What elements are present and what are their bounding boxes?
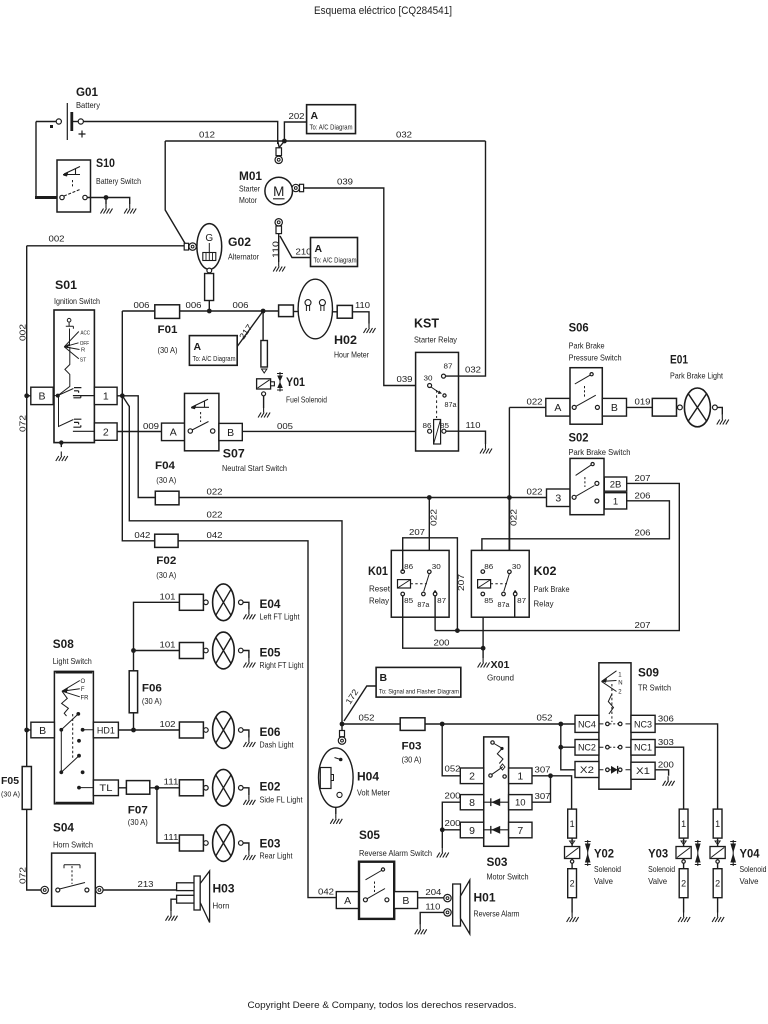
- switch S02 body: [570, 458, 604, 514]
- svg-text:A: A: [554, 402, 561, 414]
- svg-text:R: R: [81, 348, 85, 354]
- svg-text:To: A/C Diagram: To: A/C Diagram: [193, 356, 236, 363]
- wire Y03 to ground: [683, 898, 685, 913]
- switch S08 zigzag: [62, 691, 69, 716]
- connector G02 to 006 bus: [205, 274, 214, 301]
- svg-text:X2: X2: [580, 765, 594, 776]
- svg-text:072: 072: [18, 415, 28, 432]
- solenoid Y01: [257, 379, 271, 389]
- svg-text:85: 85: [404, 598, 413, 605]
- terminal Y02 1: [568, 809, 577, 838]
- wire 012/032 main line: [165, 140, 485, 142]
- volt meter H04 pin: [340, 731, 345, 737]
- alarm H01: [444, 894, 451, 901]
- wire battery positive 012 feed: [83, 122, 277, 145]
- svg-text:(30 A): (30 A): [142, 697, 162, 706]
- terminal S07 B: [219, 423, 242, 440]
- relay KST coil dashed link: [436, 390, 438, 418]
- wire 202 branch to A/C diagram: [284, 122, 306, 141]
- svg-text:206: 206: [635, 491, 651, 501]
- node 200 junction: [440, 827, 445, 832]
- terminal S03 2: [460, 768, 483, 784]
- wire 009 S01-2 to S07 A: [117, 431, 161, 433]
- switch S01 contact bars pin1: [73, 388, 95, 398]
- svg-text:A: A: [311, 110, 319, 122]
- terminal S06 A: [546, 398, 570, 416]
- terminal S05 A: [336, 892, 359, 909]
- switch S08 contacts: [76, 712, 80, 716]
- svg-text:111: 111: [164, 832, 179, 842]
- svg-text:102: 102: [160, 719, 176, 729]
- svg-text:210: 210: [296, 247, 312, 257]
- ground S03 200: [437, 848, 449, 858]
- ground H03: [166, 911, 178, 921]
- svg-text:Valve: Valve: [594, 876, 613, 886]
- terminal Y03 2: [679, 869, 688, 898]
- svg-text:202: 202: [289, 111, 305, 121]
- svg-text:Motor Switch: Motor Switch: [487, 872, 529, 882]
- terminal S03 10: [509, 795, 532, 810]
- solenoid Y02: [571, 838, 573, 846]
- wire 200 S03 8/9 to ground: [442, 802, 460, 848]
- svg-text:306: 306: [658, 714, 674, 724]
- svg-text:Pressure Switch: Pressure Switch: [569, 353, 622, 363]
- svg-text:S04: S04: [53, 821, 74, 835]
- svg-text:Volt Meter: Volt Meter: [357, 788, 390, 798]
- svg-text:To: Signal and Flasher Diagram: To: Signal and Flasher Diagram: [379, 689, 459, 696]
- switch S01 key symbol: [67, 318, 71, 322]
- ground Y03: [678, 913, 690, 923]
- wire Y02 to ground: [571, 898, 573, 913]
- wire 052 down to S03-2: [442, 724, 460, 776]
- svg-text:032: 032: [396, 130, 412, 140]
- connector A to A/C diagram (top): [307, 105, 356, 134]
- svg-text:S07: S07: [223, 447, 245, 461]
- ground KST: [480, 444, 492, 454]
- connector H02 left: [279, 305, 294, 317]
- svg-text:Neutral Start Switch: Neutral Start Switch: [222, 463, 287, 473]
- wire 306 NC3 to Y04: [655, 724, 718, 809]
- terminal S02 2B: [604, 477, 626, 491]
- svg-text:10: 10: [515, 798, 526, 809]
- svg-text:009: 009: [143, 421, 159, 431]
- switch S01 selector fan: [64, 329, 79, 359]
- svg-text:B: B: [227, 427, 234, 439]
- switch S07 body: [185, 393, 219, 450]
- svg-text:Park Brake: Park Brake: [569, 341, 605, 351]
- svg-text:S09: S09: [638, 666, 659, 680]
- svg-text:S03: S03: [487, 855, 508, 869]
- fuse F04: [155, 491, 179, 505]
- svg-text:Relay: Relay: [534, 599, 555, 609]
- svg-text:Fuel Solenoid: Fuel Solenoid: [286, 395, 327, 405]
- node 052 junction H04: [340, 722, 345, 727]
- lamp E03 rear light: [179, 835, 203, 851]
- wire left bus 002/072: [26, 246, 28, 767]
- wire 206 S02-1 loop: [482, 501, 670, 570]
- ground H04: [330, 814, 342, 824]
- svg-text:H01: H01: [474, 891, 496, 905]
- node G02/006 junction: [207, 309, 212, 314]
- svg-text:005: 005: [277, 421, 293, 431]
- wire 042 S01 to S05: [122, 396, 336, 898]
- svg-text:Rear Light: Rear Light: [260, 851, 294, 861]
- svg-text:307: 307: [535, 765, 551, 775]
- svg-text:Light Switch: Light Switch: [53, 656, 92, 666]
- terminal S08 HD1: [93, 722, 118, 738]
- svg-text:NC4: NC4: [578, 719, 596, 730]
- svg-text:KST: KST: [414, 317, 439, 331]
- node bus at S01 B: [24, 393, 29, 398]
- node junction 012/202: [282, 139, 287, 144]
- terminal S06 B: [602, 398, 626, 416]
- wire 110 H01 to ground: [420, 912, 444, 924]
- svg-text:NC3: NC3: [634, 719, 652, 730]
- solenoid Y03: [683, 838, 685, 846]
- svg-text:K01: K01: [368, 564, 388, 578]
- wire M01 to ground: [278, 234, 280, 262]
- svg-text:207: 207: [635, 473, 651, 483]
- svg-text:052: 052: [359, 713, 375, 723]
- wire 213 S04 to H03: [103, 889, 177, 891]
- svg-text:Park Brake Switch: Park Brake Switch: [569, 447, 631, 457]
- terminal S01 1: [94, 387, 117, 404]
- svg-text:87a: 87a: [417, 602, 429, 609]
- svg-text:Y04: Y04: [740, 847, 760, 861]
- svg-text:Hour Meter: Hour Meter: [334, 350, 369, 360]
- svg-text:002: 002: [49, 234, 65, 244]
- svg-text:F: F: [81, 687, 85, 693]
- svg-text:E06: E06: [260, 725, 281, 739]
- svg-text:Reverse Alarm Switch: Reverse Alarm Switch: [359, 848, 432, 858]
- svg-text:200: 200: [445, 791, 461, 801]
- svg-text:1: 1: [517, 771, 523, 783]
- terminal S09 NC1: [631, 740, 655, 756]
- svg-text:Alternator: Alternator: [228, 252, 259, 262]
- alternator G02 body: [197, 224, 222, 270]
- svg-text:172: 172: [343, 687, 360, 706]
- svg-text:F04: F04: [155, 460, 176, 472]
- svg-text:2B: 2B: [610, 480, 622, 491]
- svg-text:206: 206: [635, 528, 651, 538]
- svg-text:042: 042: [207, 530, 223, 540]
- svg-text:G: G: [205, 233, 213, 244]
- svg-text:Solenoid: Solenoid: [648, 864, 675, 874]
- wire S09 left bus to NC2 and X2: [561, 724, 575, 770]
- wire 110 KST 85 to ground: [446, 431, 486, 444]
- wire battery negative to S10: [35, 122, 37, 198]
- svg-text:To: A/C Diagram: To: A/C Diagram: [314, 258, 357, 265]
- svg-text:217: 217: [237, 322, 255, 341]
- svg-text:86: 86: [484, 564, 493, 571]
- svg-text:3: 3: [555, 493, 561, 505]
- lamp E02 side FL light: [179, 780, 203, 796]
- wire 102 HD1 row: [118, 729, 179, 731]
- terminal S08 B: [27, 729, 31, 731]
- wire 307 S03-1 to Y02: [532, 776, 572, 809]
- ground X01: [478, 658, 490, 668]
- relay KST body: [416, 352, 459, 451]
- lamp E06 dash light: [179, 722, 203, 738]
- svg-text:022: 022: [509, 509, 519, 526]
- wire 022 down to K01 pin30: [428, 498, 430, 571]
- wire K02 87 stub: [514, 596, 516, 618]
- wire 032 down to KST 87: [446, 141, 486, 376]
- svg-text:H04: H04: [357, 770, 379, 784]
- svg-text:E04: E04: [260, 597, 281, 611]
- svg-text:207: 207: [456, 574, 466, 591]
- svg-text:307: 307: [535, 791, 551, 801]
- svg-text:F05: F05: [1, 775, 19, 787]
- switch S01 contact node: [56, 394, 60, 398]
- terminal S01 2: [94, 423, 117, 440]
- switch S01 body: [54, 310, 94, 443]
- svg-text:(30 A): (30 A): [1, 790, 20, 799]
- wire 207 over K01: [403, 538, 458, 631]
- terminal S02 1: [604, 493, 626, 509]
- svg-text:110: 110: [270, 241, 280, 258]
- wire 101 E04/E05 feed: [134, 602, 180, 671]
- svg-text:Park Brake: Park Brake: [534, 584, 570, 594]
- svg-text:Reset: Reset: [369, 584, 391, 594]
- svg-text:2: 2: [103, 426, 109, 438]
- switch S08 dashed line: [72, 714, 74, 758]
- svg-text:A: A: [344, 895, 351, 907]
- svg-text:(30 A): (30 A): [128, 818, 148, 827]
- switch S01 zigzag: [58, 347, 70, 396]
- svg-text:ACC: ACC: [81, 331, 91, 337]
- wire 303 NC1 to Y03: [655, 747, 684, 809]
- wire bus F05 to S04: [27, 809, 41, 890]
- wire 207 S02-2B loop: [435, 483, 679, 630]
- svg-text:G01: G01: [76, 85, 98, 99]
- wire 111 TL row: [118, 787, 179, 789]
- terminal S09 NC4: [575, 715, 599, 732]
- svg-text:S10: S10: [96, 156, 115, 170]
- svg-text:E03: E03: [260, 837, 281, 851]
- svg-text:042: 042: [134, 530, 150, 540]
- svg-text:Reverse Alarm: Reverse Alarm: [474, 909, 520, 919]
- ground H01: [415, 925, 427, 935]
- svg-text:F03: F03: [402, 741, 422, 753]
- svg-text:87a: 87a: [445, 402, 457, 409]
- svg-text:110: 110: [466, 420, 481, 430]
- svg-text:Relay: Relay: [369, 596, 390, 606]
- svg-text:30: 30: [512, 564, 521, 571]
- svg-text:Valve: Valve: [740, 876, 759, 886]
- svg-text:ST: ST: [80, 358, 87, 364]
- wire K01 87 down to 207: [434, 596, 436, 631]
- node bus at S08 B: [24, 728, 29, 733]
- svg-text:039: 039: [397, 374, 413, 384]
- svg-text:2: 2: [469, 771, 475, 783]
- wire 022 down to K02 pin30: [508, 498, 510, 571]
- node E05 branch: [131, 648, 136, 653]
- svg-text:7: 7: [517, 825, 523, 837]
- svg-text:B: B: [39, 725, 46, 737]
- wire 006 to Y01: [262, 311, 264, 341]
- motor M01 bottom pin: [275, 219, 282, 226]
- battery G01 symbol: [36, 121, 56, 123]
- switch S06 body: [570, 368, 602, 425]
- motor M01 right pin: [292, 184, 299, 191]
- svg-text:G02: G02: [228, 235, 251, 249]
- fuse F07: [126, 781, 149, 795]
- wire S01 pin1 up to 006 bus: [121, 311, 123, 396]
- svg-text:Copyright Deere & Company, tod: Copyright Deere & Company, todos los der…: [248, 1000, 517, 1011]
- svg-text:87: 87: [444, 364, 453, 371]
- switch S09 body: [599, 663, 631, 789]
- svg-text:M: M: [273, 184, 284, 199]
- terminal S03 7: [509, 822, 532, 838]
- connector E01: [652, 398, 676, 416]
- svg-text:Starter: Starter: [239, 184, 260, 194]
- svg-text:(30 A): (30 A): [158, 346, 178, 355]
- svg-text:NC2: NC2: [578, 743, 596, 754]
- svg-text:S08: S08: [53, 637, 74, 651]
- svg-text:M01: M01: [239, 169, 262, 183]
- svg-text:Right FT Light: Right FT Light: [260, 660, 305, 670]
- fuse F02: [155, 534, 178, 547]
- svg-text:204: 204: [425, 887, 441, 897]
- svg-text:O: O: [81, 679, 86, 685]
- svg-text:101: 101: [160, 592, 176, 602]
- terminal Y04 1: [713, 809, 722, 838]
- wire 019 S06 to E01: [627, 406, 653, 408]
- wire 210 to A/C diagram: [280, 236, 311, 258]
- switch S08 selector fan: [62, 681, 80, 697]
- connector A to A/C diagram (F01 row): [189, 336, 237, 366]
- switch S09 contact row NC4-NC3: [599, 723, 631, 725]
- switch S09 selector fan: [602, 671, 617, 692]
- svg-text:022: 022: [207, 510, 223, 520]
- switch S03 diode row 9-7: [484, 829, 509, 831]
- svg-text:F01: F01: [158, 324, 178, 336]
- svg-text:86: 86: [404, 564, 413, 571]
- svg-text:042: 042: [318, 887, 334, 897]
- wire 307 jumper to pin 10: [532, 776, 551, 802]
- svg-text:(30 A): (30 A): [156, 476, 176, 485]
- ground E01: [717, 415, 729, 425]
- svg-text:B: B: [402, 895, 409, 907]
- svg-text:TL: TL: [99, 783, 112, 794]
- svg-text:K02: K02: [534, 564, 557, 578]
- wire 006 bus: [122, 310, 278, 312]
- wire 022 up to S06: [508, 407, 510, 497]
- svg-text:(30 A): (30 A): [156, 571, 176, 580]
- node F06 bottom: [131, 728, 136, 733]
- wire 217 diagonal to A/C box: [237, 311, 263, 347]
- svg-text:30: 30: [424, 376, 433, 383]
- svg-text:006: 006: [186, 300, 202, 310]
- svg-text:1: 1: [103, 391, 109, 403]
- switch S09 diode row X2-X1: [599, 769, 631, 771]
- svg-text:S01: S01: [55, 278, 77, 292]
- svg-text:Ignition Switch: Ignition Switch: [54, 296, 100, 306]
- svg-text:F06: F06: [142, 683, 162, 695]
- svg-text:2: 2: [715, 878, 720, 888]
- svg-text:Horn Switch: Horn Switch: [53, 840, 93, 850]
- svg-text:2: 2: [681, 878, 686, 888]
- wire 200 K01 85 to X01: [403, 596, 483, 659]
- connector B to signal and flasher diagram: [376, 667, 461, 697]
- svg-text:Dash Light: Dash Light: [260, 740, 295, 750]
- ground H02: [364, 324, 376, 334]
- svg-text:Park Brake Light: Park Brake Light: [670, 371, 724, 381]
- svg-text:B: B: [38, 391, 45, 403]
- connector Y01: [261, 341, 268, 368]
- svg-text:F02: F02: [156, 555, 176, 567]
- node 052/S03 junction: [440, 722, 445, 727]
- svg-text:019: 019: [635, 397, 651, 407]
- volt meter H04: [319, 748, 354, 807]
- terminal S09 X2: [575, 762, 599, 778]
- fuse F05: [22, 767, 31, 810]
- terminal S02 3: [547, 489, 571, 507]
- wire 052 row: [342, 723, 575, 725]
- svg-text:N: N: [618, 680, 622, 686]
- wire 039 M01 to KST pin30: [304, 188, 428, 386]
- svg-text:E05: E05: [260, 646, 281, 660]
- connector A to A/C diagram (mid): [311, 238, 358, 267]
- node 006/Y01 junction: [261, 309, 266, 314]
- svg-text:Horn: Horn: [213, 901, 230, 911]
- svg-text:B: B: [611, 402, 618, 414]
- svg-text:30: 30: [432, 564, 441, 571]
- svg-text:Solenoid: Solenoid: [740, 864, 767, 874]
- svg-text:9: 9: [469, 825, 475, 837]
- terminal S09 NC2: [575, 740, 599, 756]
- node X01 junction: [481, 646, 486, 651]
- svg-text:FR: FR: [81, 696, 90, 702]
- svg-text:8: 8: [469, 797, 475, 809]
- svg-text:110: 110: [355, 300, 370, 310]
- svg-text:H02: H02: [334, 333, 357, 347]
- svg-text:NC1: NC1: [634, 743, 652, 754]
- valve symbol Y04: [732, 840, 734, 866]
- hour meter H02: [298, 279, 332, 339]
- wire 012 down to G02: [165, 141, 186, 245]
- switch S09 dashed actuator: [611, 684, 613, 722]
- lamp E01 park brake light: [678, 405, 683, 410]
- svg-text:S05: S05: [359, 828, 380, 842]
- svg-text:1: 1: [715, 819, 720, 829]
- svg-text:002: 002: [18, 324, 28, 341]
- solenoid Y04: [717, 838, 719, 846]
- motor M01: [276, 148, 282, 156]
- wire 022 branch to volt meter row: [122, 396, 342, 722]
- switch S01 ground node: [59, 440, 63, 444]
- relay KST coil: [434, 420, 441, 445]
- svg-text:006: 006: [134, 300, 150, 310]
- alternator G02 left pin: [184, 243, 188, 250]
- terminal S05 B: [394, 892, 417, 909]
- svg-text:A: A: [170, 427, 177, 439]
- switch S10: [57, 160, 91, 212]
- valve symbol Y02: [587, 840, 589, 866]
- svg-text:Left FT Light: Left FT Light: [260, 612, 301, 622]
- svg-text:S06: S06: [569, 321, 589, 335]
- svg-text:B: B: [380, 672, 388, 684]
- wire 111 down to E03: [157, 788, 180, 843]
- terminal S09 X1: [631, 762, 655, 779]
- svg-text:052: 052: [445, 764, 461, 774]
- ground below M01: [273, 262, 285, 272]
- svg-text:1: 1: [570, 819, 575, 829]
- svg-text:2: 2: [570, 878, 575, 888]
- svg-text:S02: S02: [569, 431, 589, 445]
- relay K02: [471, 550, 529, 617]
